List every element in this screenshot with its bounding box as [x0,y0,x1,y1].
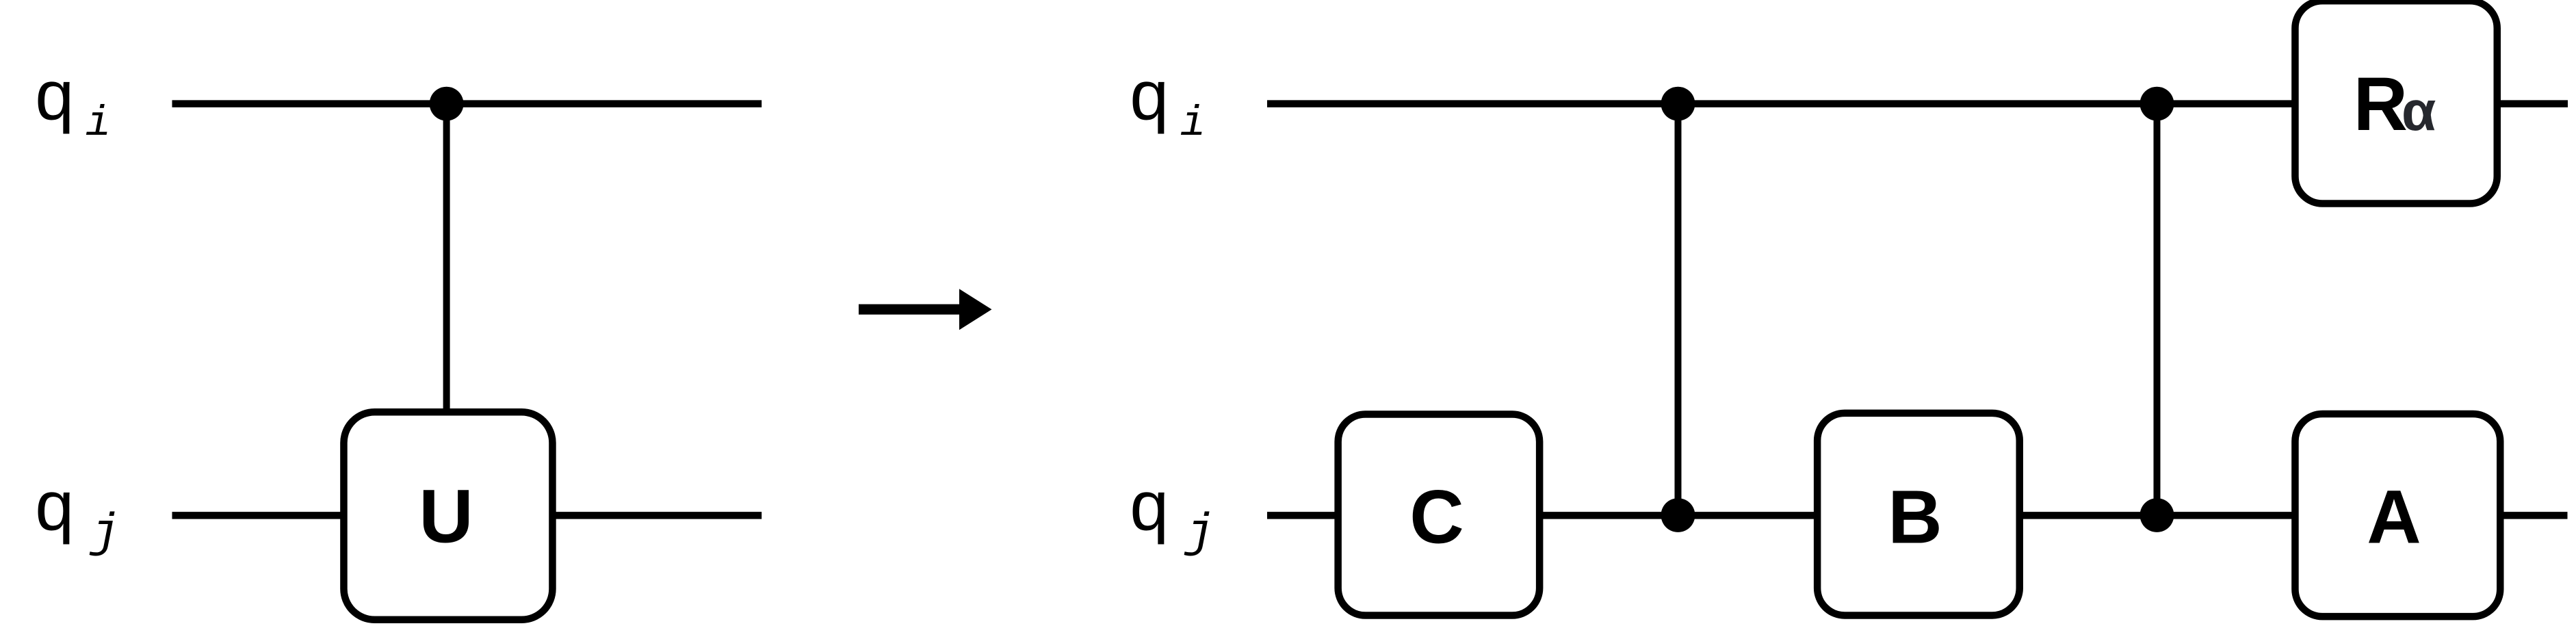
svg-text:j: j [89,507,120,561]
svg-text:q: q [1130,467,1169,545]
svg-text:q: q [35,56,74,135]
gate Ra box [2295,1,2497,203]
wire CZ vertical 2 [2154,104,2161,515]
qubit label q_i (right circuit) [1130,56,1206,148]
svg-text:C: C [1409,475,1463,560]
control dot on q_i (left circuit) [430,87,464,121]
qubit label q_j (right circuit) [1130,467,1214,562]
svg-text:A: A [2367,475,2421,560]
wire CZ vertical 1 [1675,104,1682,515]
qubit label q_i (left circuit) [35,56,111,148]
control dot CZ1 on q_j [1661,498,1695,532]
svg-text:i: i [1180,99,1206,148]
svg-text:q: q [1130,56,1169,135]
arrow [859,289,992,330]
gate C box [1338,415,1539,616]
gate U box [343,412,552,620]
control dot CZ2 on q_j [2140,498,2174,532]
gate A box [2295,414,2500,616]
svg-text:q: q [35,467,74,545]
svg-text:B: B [1888,475,1942,560]
qubit label q_j (left circuit) [35,467,120,562]
svg-text:U: U [419,475,473,559]
svg-text:i: i [86,99,111,148]
wire q_i (left circuit) [172,100,762,107]
wire q_j (right circuit) [1267,512,2568,519]
control dot CZ2 on q_i [2140,87,2174,121]
svg-text:j: j [1184,507,1214,561]
control dot CZ1 on q_i [1661,87,1695,121]
wire q_i (right circuit) [1267,100,2568,107]
wire q_j (left circuit) [172,512,762,519]
gate B box [1817,413,2020,616]
wire control vertical (left circuit) [443,104,450,445]
